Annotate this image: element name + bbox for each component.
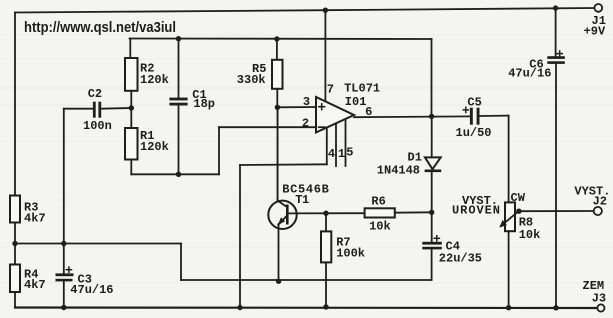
svg-text:18p: 18p <box>193 97 215 111</box>
resistor R2 <box>125 58 138 91</box>
wire bias node corner down <box>180 244 182 281</box>
junction dot D1 on output wire <box>429 114 434 119</box>
junction dot R3/R4 bias <box>12 241 17 246</box>
wire R2 top lead to feedback rail <box>129 39 131 59</box>
wire R1 top lead <box>130 108 132 128</box>
wire C5 right to R8 corner <box>480 115 509 117</box>
terminal J3 circle <box>597 304 604 311</box>
svg-text:1u/50: 1u/50 <box>456 126 492 140</box>
svg-text:10k: 10k <box>369 220 391 234</box>
polarity plus C6 <box>557 51 562 56</box>
wire R8 top lead vertical <box>508 116 510 203</box>
capacitor C3 plate bottom <box>56 279 73 282</box>
wire R8 bottom to ground rail <box>508 231 510 308</box>
transistor T1 emitter arrowhead <box>278 217 286 225</box>
wire pin4 stub <box>326 128 328 165</box>
svg-text:1: 1 <box>338 147 345 161</box>
capacitor C2 plate left <box>93 102 96 118</box>
wire bias node horizontal (R3/R4 junction to right) <box>15 243 181 245</box>
wire C6 top lead <box>555 8 557 56</box>
svg-text:UROVEN: UROVEN <box>452 204 500 218</box>
svg-text:2: 2 <box>302 117 309 131</box>
svg-text:47u/16: 47u/16 <box>508 67 551 81</box>
terminal J2 circle <box>594 207 602 215</box>
svg-text:J3: J3 <box>592 292 606 306</box>
svg-text:4: 4 <box>328 147 335 161</box>
capacitor C4 plate top <box>422 242 442 245</box>
svg-text:1N4148: 1N4148 <box>377 163 420 177</box>
svg-text:C2: C2 <box>88 87 102 101</box>
wire bias node long horizontal to C4 <box>181 279 432 281</box>
wire R8 wiper to J2 <box>519 210 594 212</box>
svg-text:120k: 120k <box>140 73 169 87</box>
wire pin7 supply <box>324 10 326 101</box>
wire pin2 riser vertical <box>218 127 220 174</box>
resistor R1 <box>125 128 138 160</box>
wire R5 bottom lead to pin3 node <box>276 89 278 108</box>
diode D1 triangle <box>425 157 441 169</box>
polarity plus C4 <box>434 236 439 241</box>
junction dot C1 on feedback rail <box>176 36 181 41</box>
junction dot T1 emitter on bias wire <box>276 279 281 284</box>
svg-text:7: 7 <box>327 82 334 96</box>
wire T1 collector vertical (up to pin3 node) <box>277 107 279 201</box>
svg-text:T 1: T 1 <box>295 193 309 207</box>
svg-text:C5: C5 <box>467 95 481 109</box>
wire feedback node horizontal to pin2 riser <box>131 173 219 175</box>
wire C2 left lead horizontal <box>64 108 93 110</box>
wire feedback rail corner down to output <box>431 39 433 116</box>
potentiometer R8 wiper arrowhead <box>499 220 507 228</box>
wire R1 bottom lead <box>130 160 132 175</box>
wire R5 top lead <box>276 39 278 60</box>
capacitor C5 plate right <box>477 108 480 125</box>
wire C3 top lead <box>63 244 65 274</box>
wire output pin6 <box>354 115 470 118</box>
svg-text:CW: CW <box>511 191 526 205</box>
svg-text:330k: 330k <box>237 73 266 87</box>
transistor T1 emitter diagonal <box>278 216 287 226</box>
capacitor C4 plate bottom <box>422 247 442 250</box>
wire C3 bottom to ground rail <box>63 281 65 307</box>
wire D1 anode lead <box>431 116 433 157</box>
scan texture bands (decorative) <box>0 34 613 284</box>
transistor T1 BC546B circle <box>268 201 296 229</box>
wire pin1 stub dangling <box>335 124 337 167</box>
potentiometer R8 body <box>505 202 515 231</box>
wire T1 base to R6 <box>288 212 365 214</box>
capacitor C1 plate top <box>169 98 187 101</box>
svg-text:10k: 10k <box>519 228 541 242</box>
svg-text:5: 5 <box>346 146 353 160</box>
wire C1 top lead <box>178 39 180 98</box>
wire non-inverting input pin3 <box>277 106 316 108</box>
wire C2 right lead to R2/R1 junction <box>101 107 131 110</box>
label opamp plus input <box>319 104 325 110</box>
capacitor C6 plate top <box>547 56 565 59</box>
svg-text:+9V: +9V <box>584 24 606 38</box>
svg-text:http://www.qsl.net/va3iul: http://www.qsl.net/va3iul <box>24 19 176 36</box>
wire left branch vertical (top rail to R3) <box>14 13 16 196</box>
junction dot R5 on feedback rail <box>274 36 279 41</box>
wire R3 bottom to R4 top <box>14 223 16 265</box>
wire R2 bottom lead <box>130 91 132 108</box>
junction dot pin7 on top rail <box>323 8 328 13</box>
junction dot R2/R1/C2 <box>129 105 134 110</box>
junction dot C6 ground on ground rail <box>553 305 558 310</box>
junction dot R5/pin3/collector <box>275 105 280 110</box>
diode D1 cathode bar <box>425 170 442 173</box>
wire T1 emitter vertical to bias wire <box>278 224 280 281</box>
wire D1 cathode to R6 node <box>431 172 433 242</box>
junction dot C3/C2 on bias wire <box>61 241 66 246</box>
polarity plus C3 <box>66 267 71 272</box>
wire pin3 node down to T1 collector <box>277 107 279 201</box>
wire C4 bottom lead up <box>431 249 433 280</box>
terminal J1 circle <box>594 4 602 12</box>
wire R6 right to D1/C4 node <box>395 211 432 213</box>
svg-text:J2: J2 <box>593 194 607 208</box>
junction dot C1 bottom on feedback wire <box>176 172 181 177</box>
junction dot ground riser on ground rail <box>237 305 242 310</box>
junction dot R7 bottom on ground rail <box>323 304 328 309</box>
svg-text:TL071: TL071 <box>344 82 380 96</box>
capacitor C1 plate bottom <box>169 103 187 106</box>
capacitor C2 plate right <box>98 102 101 118</box>
svg-text:I01: I01 <box>345 95 367 109</box>
potentiometer R8 wiper diagonal <box>501 211 519 226</box>
junction dot R6/D1/C4 node <box>429 210 434 215</box>
wire ground riser x240 <box>239 165 241 308</box>
wire C6 bottom / ground vertical to rail <box>555 64 557 308</box>
capacitor C3 plate top <box>56 273 74 276</box>
junction dot R8 bottom on ground rail <box>506 305 511 310</box>
wire top +9V rail <box>15 8 595 13</box>
junction dot C6 on top rail <box>553 5 558 10</box>
svg-text:R6: R6 <box>371 195 385 209</box>
svg-text:4k7: 4k7 <box>24 278 46 292</box>
resistor R3 <box>10 196 20 223</box>
wire pin5 stub dangling <box>345 119 347 166</box>
label opamp minus input <box>319 126 325 128</box>
capacitor C5 plate left <box>470 108 473 125</box>
resistor R4 <box>10 265 20 293</box>
junction dot R7 top on base wire <box>323 211 328 216</box>
junction dot C3 bottom on ground rail <box>61 305 66 310</box>
wire R4 bottom to ground rail <box>14 292 16 308</box>
svg-text:47u/16: 47u/16 <box>70 283 113 297</box>
resistor R5 <box>272 60 283 89</box>
svg-text:3: 3 <box>303 95 310 109</box>
capacitor C6 plate bottom <box>547 61 565 64</box>
transistor T1 collector diagonal <box>278 201 287 207</box>
wire inverting input pin2 <box>219 126 317 128</box>
svg-text:120k: 120k <box>140 140 169 154</box>
wire R7 bottom to ground rail <box>325 262 327 307</box>
op-amp U1 TL071 triangle <box>316 97 354 133</box>
svg-text:100k: 100k <box>336 247 365 261</box>
wire R7 top lead <box>325 213 327 231</box>
svg-text:22u/35: 22u/35 <box>439 252 482 266</box>
svg-text:4k7: 4k7 <box>24 212 46 226</box>
wire pin4 to ground corner horizontal <box>240 163 327 166</box>
wire C1 bottom lead <box>178 105 180 174</box>
wire feedback rail horizontal y38 <box>130 38 432 41</box>
wire C2 left lead vertical <box>63 109 65 244</box>
resistor R6 <box>365 208 395 217</box>
transistor T1 base bar <box>286 205 289 225</box>
svg-text:100n: 100n <box>83 119 112 133</box>
wire bottom ground rail <box>15 306 597 309</box>
junction dot R8 wiper <box>516 209 521 214</box>
polarity plus C5 <box>463 107 468 112</box>
resistor R7 <box>321 231 331 262</box>
